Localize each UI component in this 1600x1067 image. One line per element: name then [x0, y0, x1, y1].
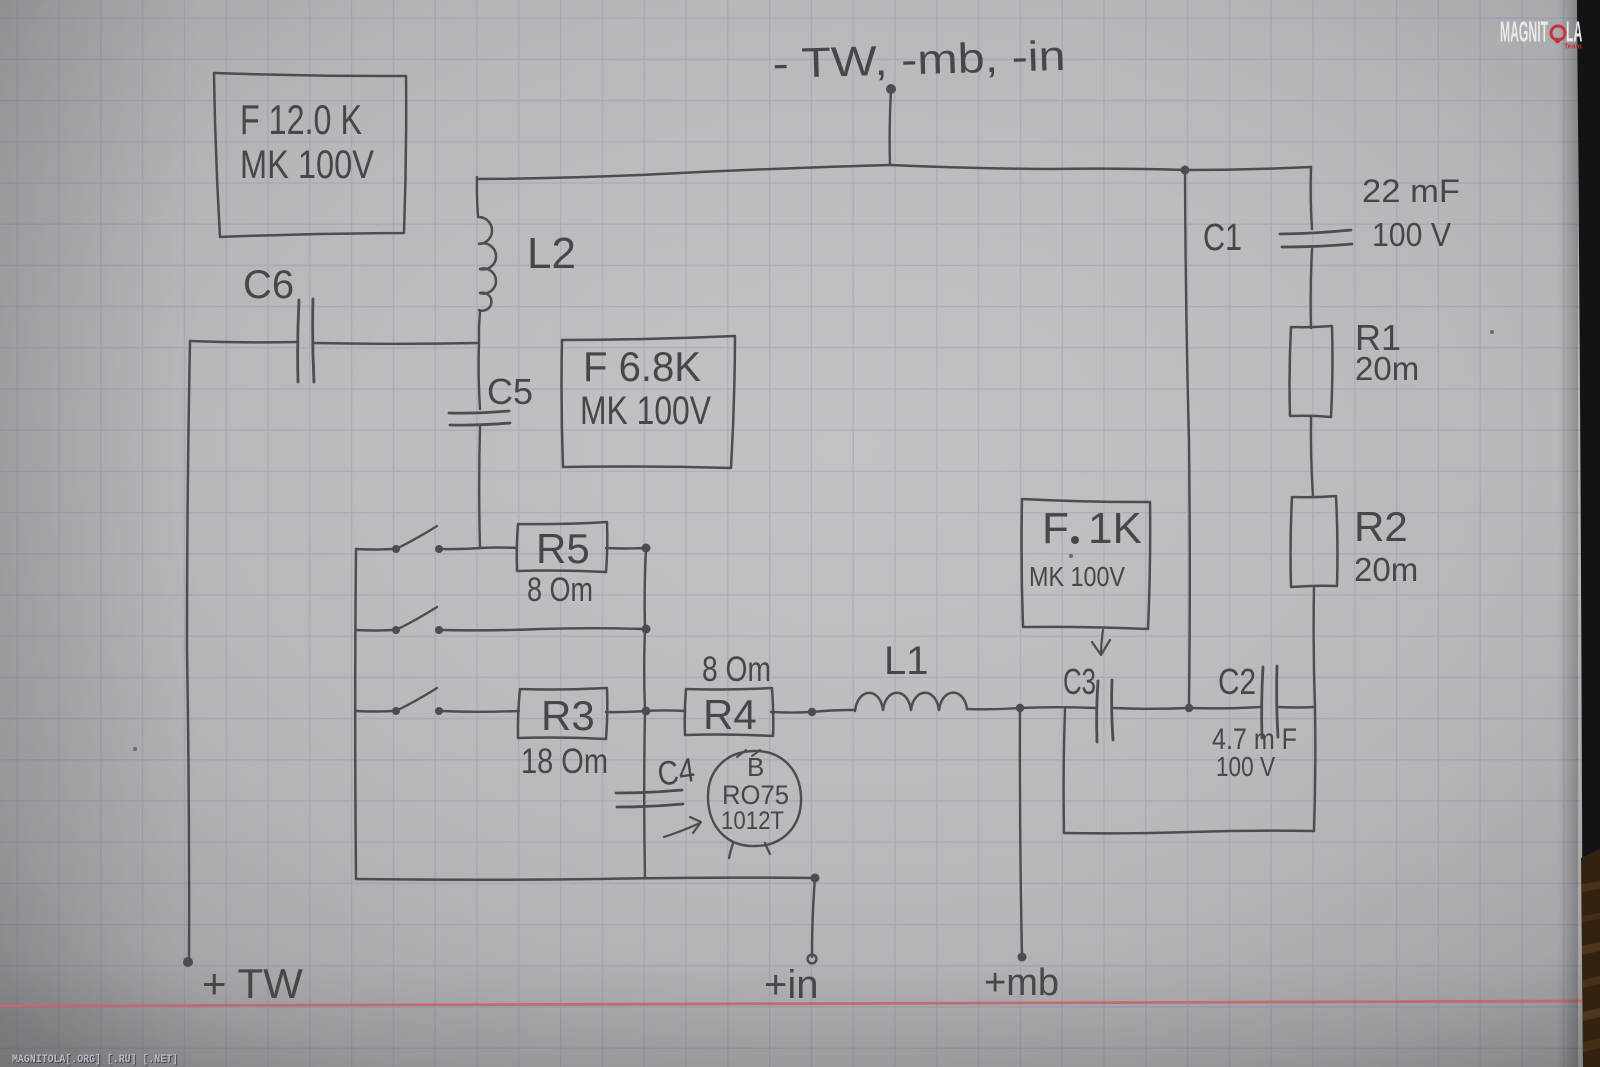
- svg-text:+in: +in: [764, 963, 819, 1007]
- pencil speck right: [1490, 330, 1494, 334]
- wire top bus: [477, 165, 1311, 179]
- switch SW3 blade: [396, 688, 437, 711]
- arrow from F.1K box to C3 (shaft): [1101, 630, 1103, 652]
- inductor L2: [478, 217, 496, 311]
- svg-text:L1: L1: [884, 639, 929, 683]
- capacitor C5 top plate: [449, 411, 509, 413]
- capacitor C4 top plate: [616, 790, 682, 793]
- box label F.1K: [1022, 499, 1151, 629]
- node junction top bus / C1 branch: [1181, 166, 1190, 175]
- resistor R2: [1291, 496, 1338, 587]
- switch SW2 contact node: [435, 626, 443, 634]
- svg-text:F 6.8K: F 6.8K: [583, 343, 701, 390]
- svg-text:C5: C5: [487, 371, 533, 412]
- wire SW3 to R3: [441, 710, 519, 713]
- wire row1 bus to switch: [356, 548, 393, 551]
- watermark MAGNITOLA[.ORG] [.RU] [.NET]: [12, 1054, 179, 1067]
- wire right side down from R2: [1314, 586, 1316, 831]
- wire C5 to switch row 1: [478, 427, 481, 548]
- resistor R5: [517, 522, 608, 572]
- speaker B RO75 1012T circle: [708, 751, 801, 846]
- capacitor C2 right plate: [1277, 666, 1278, 737]
- svg-text:C3: C3: [1063, 661, 1096, 702]
- svg-text:RO75: RO75: [722, 780, 789, 810]
- svg-text:MK 100V: MK 100V: [1029, 561, 1125, 592]
- node +TW terminal: [183, 957, 193, 967]
- node +in terminal: [808, 955, 817, 964]
- capacitor C3 left plate: [1097, 681, 1098, 742]
- wire L2 to C6 junction: [479, 311, 480, 343]
- switch SW2 blade: [396, 607, 437, 630]
- capacitor C2 left plate: [1262, 667, 1263, 738]
- capacitor C1 bottom plate: [1282, 244, 1352, 247]
- speaker right leg: [765, 843, 770, 854]
- capacitor C6 left plate: [298, 300, 299, 382]
- svg-text:R4: R4: [703, 691, 757, 738]
- wire +in drop: [812, 878, 815, 957]
- dark table edge right: [1577, 0, 1600, 1067]
- node -TW,-mb,-in terminal blob: [886, 84, 896, 94]
- svg-text:18 Om: 18 Om: [521, 742, 608, 781]
- svg-text:1K: 1K: [1088, 504, 1142, 553]
- svg-text:8 Om: 8 Om: [702, 650, 771, 689]
- wire switch bus left vertical: [354, 549, 357, 879]
- svg-text:22 mF: 22 mF: [1362, 173, 1460, 209]
- arrow from F.1K box to C3 (head): [1092, 640, 1110, 655]
- wire vertical row2 to row3: [643, 629, 646, 711]
- svg-text:F: F: [1042, 504, 1069, 553]
- speaker left leg: [729, 843, 733, 858]
- svg-text:MK 100V: MK 100V: [240, 143, 374, 187]
- svg-text:- TW, -mb, -in: - TW, -mb, -in: [772, 32, 1066, 87]
- pencil dot below F.1K bullet: [1069, 554, 1073, 558]
- wire SW1 to R5: [441, 548, 517, 550]
- pencil speck left: [133, 747, 137, 751]
- capacitor C5 bottom plate: [450, 423, 510, 425]
- node junction row2 / vertical: [642, 625, 651, 634]
- wire vertical row1 to row2: [645, 548, 646, 629]
- svg-text:F 12.0 K: F 12.0 K: [240, 96, 362, 143]
- wire +mb drop: [1020, 708, 1022, 956]
- switch SW1 pivot node: [392, 545, 400, 553]
- arrow to speaker (shaft): [664, 823, 700, 837]
- node +mb terminal: [1018, 953, 1027, 962]
- arrow to speaker (head): [690, 817, 701, 833]
- svg-text:C6: C6: [243, 263, 294, 307]
- wire bottom loop horizontal: [1064, 831, 1314, 834]
- svg-text:+mb: +mb: [984, 962, 1059, 1004]
- svg-text:20m: 20m: [1354, 551, 1418, 588]
- capacitor C3 right plate: [1112, 680, 1113, 740]
- svg-text:R3: R3: [541, 692, 595, 739]
- svg-text:MK 100V: MK 100V: [580, 389, 711, 433]
- resistor R1: [1290, 326, 1333, 417]
- wire top bus corner down to L2: [477, 177, 478, 216]
- node junction row3 / vertical: [642, 707, 651, 716]
- wire bottom rail: [356, 878, 815, 880]
- switch SW2 pivot node: [392, 626, 400, 634]
- svg-text:B: B: [747, 752, 764, 782]
- wire R3 to R4: [606, 710, 685, 712]
- resistor R4: [685, 688, 774, 736]
- red notebook margin line: [0, 1001, 1583, 1006]
- svg-text:R5: R5: [536, 525, 590, 572]
- node junction row1 / vertical: [642, 544, 651, 553]
- wire top bus corner down to C1: [1311, 167, 1312, 229]
- svg-text:C1: C1: [1203, 217, 1242, 259]
- site logo MAGNITOLA: [1500, 15, 1582, 50]
- wire C1 to R1: [1311, 249, 1312, 328]
- svg-text:100 V: 100 V: [1216, 751, 1275, 782]
- wire C6 junction to C5: [479, 343, 480, 409]
- switch SW1 blade: [396, 526, 437, 549]
- wire left main vertical to +TW: [187, 341, 190, 962]
- node junction center vertical / mid bus: [1185, 704, 1193, 712]
- wire SW2 to row2 junction: [441, 628, 644, 630]
- wire bottom loop left vertical: [1064, 709, 1065, 833]
- node junction bottom rail / +in drop: [811, 874, 820, 883]
- wire stub from -TW,-mb,-in label: [890, 90, 891, 165]
- svg-text:C4: C4: [655, 751, 697, 794]
- wire C2 to right side: [1278, 706, 1315, 709]
- wire row2 bus to switch: [356, 629, 393, 632]
- wire R5 to row1 junction: [606, 547, 644, 550]
- wire C6 to L2 junction: [314, 342, 477, 345]
- wire left main to C6: [190, 341, 298, 342]
- box label F 12.0K: [214, 73, 406, 237]
- box label F 6.8K: [562, 336, 735, 468]
- wire R1 to R2: [1311, 416, 1313, 497]
- resistor R3: [518, 688, 607, 739]
- svg-text:R2: R2: [1354, 503, 1408, 550]
- svg-text:8 Om: 8 Om: [527, 571, 593, 609]
- wood table bottom right corner: [1581, 849, 1600, 1067]
- svg-text:+ TW: + TW: [202, 960, 303, 1007]
- node junction mid bus / +mb drop: [1016, 704, 1024, 712]
- svg-text:L2: L2: [527, 229, 576, 278]
- speaker top tick marks: [737, 750, 746, 757]
- capacitor C4 bottom plate: [617, 804, 683, 807]
- svg-text:100 V: 100 V: [1372, 216, 1451, 253]
- wire C3 to center junction: [1113, 707, 1188, 710]
- node junction mid bus / +in drop: [808, 708, 816, 716]
- svg-text:MAGNITOLA[.ORG] [.RU] [.NET]: MAGNITOLA[.ORG] [.RU] [.NET]: [12, 1054, 178, 1066]
- svg-text:20m: 20m: [1355, 350, 1419, 387]
- capacitor C6 right plate: [313, 299, 314, 382]
- switch SW3 contact node: [435, 707, 443, 715]
- wire row3 bus to switch: [356, 710, 393, 713]
- wire R4 to L1: [771, 710, 853, 713]
- speaker top tick mark 2: [752, 750, 760, 756]
- box text F.1K bullet dot: [1071, 536, 1079, 544]
- wire center vertical from top bus: [1185, 171, 1190, 708]
- svg-text:MAGNIT: MAGNIT: [1500, 15, 1548, 48]
- switch SW3 pivot node: [392, 707, 400, 715]
- inductor L1: [855, 693, 967, 711]
- svg-text:1012T: 1012T: [721, 807, 784, 835]
- wire vertical row3 to bottom rail: [643, 711, 646, 878]
- svg-text:Team: Team: [1564, 44, 1582, 51]
- wire center junction to C2: [1189, 707, 1262, 708]
- switch SW1 contact node: [435, 545, 443, 553]
- capacitor C1 top plate: [1280, 230, 1351, 234]
- paper right edge shadow: [1558, 0, 1578, 1067]
- wire L1 to C3: [967, 707, 1096, 709]
- svg-text:C2: C2: [1218, 661, 1256, 702]
